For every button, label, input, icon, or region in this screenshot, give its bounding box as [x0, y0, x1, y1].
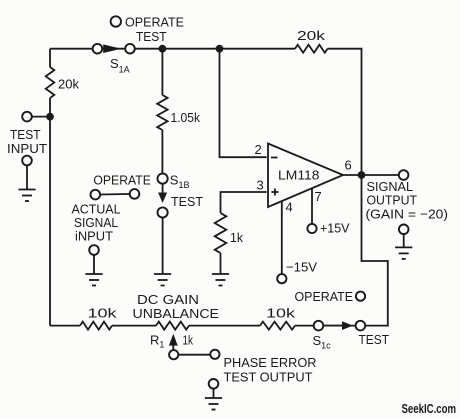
- wire non-inverting input: pin 3 to 1k resistor top: [221, 192, 267, 213]
- svg-text:1k: 1k: [183, 333, 194, 348]
- svg-text:20k: 20k: [297, 28, 326, 43]
- op-amp minus sign: [271, 157, 278, 159]
- ground for phase error output: [213, 389, 215, 398]
- svg-text:10k: 10k: [88, 306, 118, 321]
- svg-text:4: 4: [286, 200, 293, 215]
- terminal test input ground jack: [22, 156, 32, 166]
- wire inverting input branch: junction down, to pin 2: [220, 49, 267, 158]
- svg-text:OPERATE: OPERATE: [125, 15, 184, 30]
- svg-text:SeekIC.com: SeekIC.com: [402, 401, 457, 416]
- svg-text:LM118: LM118: [278, 168, 320, 183]
- wire bar between operate contact pair: [100, 193, 130, 196]
- wire S1B test throw down to ground: [162, 218, 164, 274]
- wire middle branch: top junction down through 1.05k to switch S1B: [161, 49, 163, 174]
- wire feedback right side down to output node, jog, down to bottom rail: [328, 49, 388, 326]
- junction node: inverting branch on top rail: [216, 45, 224, 53]
- switch S1B pole circle: [158, 174, 168, 184]
- resistor 20k feedback (top right): [295, 45, 328, 53]
- svg-text:PHASE ERROR: PHASE ERROR: [224, 355, 317, 370]
- wire top rail from left corner to feedback resistor: [50, 48, 295, 50]
- resistor 1.05k: [157, 95, 167, 130]
- switch S1B throw circle (test): [158, 207, 168, 217]
- terminal phase error ground jack: [209, 379, 219, 389]
- resistor 10k (bottom right): [260, 322, 295, 330]
- terminal actual signal input jack: [89, 245, 99, 255]
- svg-text:OUTPUT: OUTPUT: [367, 193, 418, 208]
- svg-text:TEST: TEST: [136, 29, 167, 44]
- switch S1C operate circle: [356, 292, 365, 301]
- wire bottom rail left segment: [50, 325, 360, 327]
- svg-text:10k: 10k: [266, 306, 296, 321]
- op-amp U1 LM118 triangle: [268, 144, 343, 208]
- ground for S1B test position: [154, 273, 171, 275]
- svg-text:6: 6: [345, 158, 352, 173]
- svg-text:1k: 1k: [230, 230, 243, 245]
- switch S1A operate circle (top): [111, 16, 121, 26]
- wire wiper jack to phase error jack: [178, 354, 210, 356]
- resistor 1k (pin 3 to ground): [215, 213, 227, 253]
- svg-text:TEST: TEST: [10, 127, 41, 142]
- svg-text:20k: 20k: [58, 77, 79, 92]
- switch S1A pole circle: [93, 44, 103, 54]
- svg-text:UNBALANCE: UNBALANCE: [133, 306, 220, 321]
- svg-text:OPERATE: OPERATE: [93, 173, 151, 188]
- svg-text:3: 3: [257, 178, 264, 193]
- wire test input jack to left rail: [32, 116, 50, 118]
- junction node: output: [358, 171, 366, 179]
- terminal TEST INPUT jack: [22, 112, 32, 122]
- potentiometer R1 wiper arrow: [172, 344, 174, 350]
- op-amp plus sign: [272, 189, 279, 196]
- svg-text:1.05k: 1.05k: [171, 110, 201, 125]
- svg-text:TEST OUTPUT: TEST OUTPUT: [224, 370, 313, 385]
- resistor 10k (bottom left): [80, 322, 112, 330]
- terminal signal output ground jack: [399, 225, 409, 235]
- supply terminal +15V: [307, 224, 316, 233]
- switch S1C pole circle: [314, 321, 324, 331]
- switch S1B operate contact pair: [91, 190, 101, 200]
- switch S1A throw circle: [125, 44, 135, 54]
- svg-text:TEST: TEST: [171, 194, 203, 209]
- switch S1B arrow down: [162, 184, 164, 193]
- ground for actual signal input: [93, 255, 95, 274]
- resistor 20k input (left): [46, 67, 55, 98]
- svg-text:iNPUT: iNPUT: [75, 229, 113, 244]
- junction node: test input on left rail: [46, 113, 54, 121]
- svg-text:OPERATE: OPERATE: [295, 289, 354, 304]
- supply terminal -15V: [277, 274, 286, 283]
- ground for 1k resistor: [220, 253, 222, 274]
- svg-text:7: 7: [315, 189, 322, 204]
- svg-text:TEST: TEST: [359, 332, 390, 347]
- wire output pin 6 to output terminal: [343, 174, 404, 176]
- potentiometer R1 1k element: [156, 322, 189, 330]
- switch S1C throw circle: [356, 321, 366, 331]
- svg-text:+15V: +15V: [320, 221, 350, 236]
- wire pin 7 down to +15V terminal: [311, 188, 313, 224]
- wire left rail down: [49, 49, 51, 326]
- terminal SIGNAL OUTPUT jack: [399, 170, 409, 180]
- svg-text:(GAIN = −20): (GAIN = −20): [366, 207, 449, 222]
- wire pin 4 down to -15V terminal: [281, 201, 283, 274]
- terminal R1 wiper jack: [169, 350, 178, 359]
- terminal phase error test output jack: [210, 350, 219, 359]
- svg-text:INPUT: INPUT: [7, 141, 47, 156]
- ground for signal output: [403, 234, 405, 247]
- junction node: middle branch on top rail: [159, 45, 167, 53]
- switch S1A arrow: [103, 44, 121, 53]
- svg-text:2: 2: [255, 142, 262, 157]
- ground for test input: [26, 165, 28, 189]
- svg-text:DC GAIN: DC GAIN: [137, 292, 199, 307]
- switch S1C arrow: [323, 325, 342, 327]
- svg-text:−15V: −15V: [286, 260, 317, 275]
